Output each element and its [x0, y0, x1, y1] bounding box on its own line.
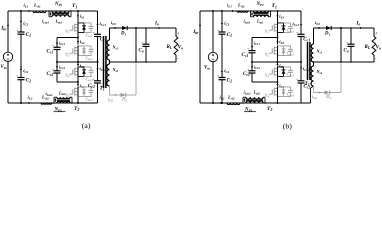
current arrow Iin (b)	[199, 26, 201, 31]
svg-text:+: +	[93, 77, 95, 81]
svg-text:Cc2: Cc2	[47, 72, 54, 77]
wire: top rail to S1 (a)	[77, 11, 79, 23]
source Vin (b)	[208, 52, 217, 61]
winding Ns2 (a)	[107, 64, 110, 86]
node: primary left (a)	[48, 10, 50, 12]
wire: magnetizing branch stubs (a)	[48, 11, 50, 17]
inductor NP1 primary winding (a)	[52, 11, 69, 13]
current arrow iS3 (a)	[77, 63, 79, 64]
current arrow iC2 (a)	[20, 70, 22, 74]
wire: clamp-right branch (a)	[97, 11, 99, 34]
svg-text:D1: D1	[120, 31, 126, 36]
transistor S4 (b) channel/gate	[273, 88, 275, 96]
current arrow iS1 (b)	[277, 13, 279, 16]
wire: input cap branch (a)	[20, 11, 22, 32]
transistor S1 (a) channel/gate	[74, 24, 76, 32]
wire: clamp-left branch to rail3 (b)	[251, 53, 253, 62]
svg-text:(a): (a)	[82, 121, 91, 130]
wire: Ns2 bottom stub (gray) (a)	[109, 86, 111, 95]
node: primary left (b)	[250, 10, 252, 12]
junction: rail2 (b)	[277, 37, 279, 39]
inductor Lm2 magnetizing (a)	[57, 97, 70, 99]
capacitor C2 (a)	[18, 77, 25, 79]
junction: cap branch top (a)	[20, 10, 22, 12]
wire: Co branch (b)	[350, 28, 352, 44]
transformer core bars (a)	[52, 12, 69, 14]
svg-text:T2: T2	[74, 106, 79, 112]
inductor LA2 (a)	[41, 103, 52, 104]
body diode of S4 (b)	[278, 87, 284, 97]
drain-source line of S1 (a)	[77, 22, 79, 33]
wire: S2 source to rail3 (b)	[277, 56, 279, 62]
current arrow iS4 (a)	[77, 83, 79, 84]
transformer core bars (b)	[246, 100, 263, 102]
svg-text:T1: T1	[72, 3, 77, 9]
junction: cap branch top (b)	[221, 10, 223, 12]
body diode of S3 (b)	[278, 67, 284, 77]
transformer core (a)	[103, 36, 105, 88]
capacitor Cc1 (a)	[94, 33, 101, 35]
current arrow Io (b)	[357, 27, 360, 29]
current arrow iS4 (b)	[277, 83, 279, 84]
transistor S2 (a) channel/gate	[74, 47, 76, 55]
current arrow iD1 (b)	[317, 27, 319, 29]
wire: secondary center tap (a)	[109, 60, 111, 64]
capacitor Cc2 left (b)	[249, 70, 256, 72]
capacitor Co (a)	[143, 43, 150, 45]
svg-text:Cc1: Cc1	[242, 53, 249, 58]
current arrow iC1 (a)	[20, 22, 22, 26]
svg-text:D1: D1	[324, 31, 330, 36]
junction: D1 output node (b)	[340, 27, 342, 29]
drain-source line of S4 (b)	[277, 86, 279, 97]
junction: S4 source on bottom rail (b)	[277, 102, 279, 104]
current arrow iD2 (gray) (a)	[113, 94, 115, 96]
inductor Lm2 magnetizing (b)	[246, 97, 263, 99]
diode D2 (gray) (a)	[121, 93, 126, 97]
wire: D2 to output return (gray) (a)	[126, 94, 136, 96]
svg-text:(b): (b)	[283, 122, 292, 131]
wire: D2 rail (gray) (a)	[110, 94, 121, 96]
diode D1 (b)	[326, 26, 331, 30]
svg-text:Vin: Vin	[1, 65, 7, 70]
wire: clamp-left branch lower (b)	[251, 62, 253, 71]
current arrow iS1 (a)	[77, 13, 79, 16]
current arrow iC1 (b)	[221, 20, 223, 24]
winding Ns1 (a)	[107, 40, 110, 60]
wire: magnetizing branch stubs (b)	[242, 97, 244, 103]
capacitor Cc1 left (a)	[54, 46, 61, 48]
junction: clamp-right on rail3 (a)	[97, 61, 99, 63]
inductor NP1 primary winding (b)	[254, 11, 269, 13]
current arrow Io (a)	[156, 27, 159, 29]
wire: output loop left edge (a)	[135, 28, 137, 62]
junction: cap branch bottom (a)	[20, 102, 22, 104]
node: bottom primary right (a)	[71, 102, 73, 104]
underline of NP2 label (a)	[54, 111, 66, 113]
wire: D1 rail (a)	[110, 27, 137, 29]
junction: clamp-left on rail3 (a)	[56, 61, 58, 63]
svg-text:+: +	[217, 29, 219, 33]
drain-source line of S4 (a)	[77, 86, 79, 97]
wire: output bottom rail (a)	[136, 61, 176, 63]
capacitor Coss3 of S3 (b)	[284, 67, 291, 71]
wire: Ns2 bottom stub (gray) (b)	[311, 86, 314, 88]
svg-text:Vin: Vin	[204, 66, 210, 71]
wire: Ns1 top to D1 rail (b)	[313, 28, 315, 44]
capacitor Coss2 of S2 (a)	[84, 46, 91, 50]
wire: secondary center tap (b)	[313, 62, 315, 66]
svg-text:+: +	[247, 67, 249, 71]
capacitor Coss1 of S1 (a)	[84, 23, 91, 27]
drain-source line of S3 (a)	[77, 66, 79, 77]
transistor S2 (b) channel/gate	[273, 47, 275, 55]
node: bottom primary left (b)	[242, 102, 244, 104]
svg-text:Co: Co	[139, 49, 144, 54]
wire: Co branch (a)	[145, 28, 147, 44]
junction: S1 drain on top rail (b)	[277, 10, 279, 12]
wire: D2 rail (gray) (b)	[314, 92, 325, 94]
junction: cap branch bottom (b)	[221, 102, 223, 104]
body diode of S3 (a)	[78, 67, 84, 77]
wire: D2 to output return (gray) (b)	[330, 92, 341, 94]
wire: magnetizing branch stubs (b)	[250, 11, 252, 17]
wire: rail3 (a)	[57, 61, 98, 63]
svg-text:+: +	[247, 47, 249, 51]
current arrow iS2 (b)	[277, 39, 279, 41]
winding Ns1 (b)	[311, 44, 313, 62]
svg-text:Io: Io	[356, 22, 361, 27]
capacitor C1 (b)	[219, 31, 226, 33]
junction: rail4 (a)	[77, 81, 79, 83]
wire: output loop left edge (b)	[340, 28, 342, 62]
wire: rail3 (b)	[252, 61, 301, 63]
capacitor Coss1 of S1 (b)	[284, 23, 291, 27]
current arrow iCc2a (b)	[251, 64, 253, 66]
node: bottom primary left (a)	[53, 102, 55, 104]
junction: output bottom-left (b)	[340, 61, 342, 63]
wire: bottom rail (b)	[200, 102, 311, 104]
wire: output bottom rail (b)	[341, 61, 374, 63]
transistor S4 (a) channel/gate	[74, 88, 76, 96]
underline of NP2 label (b)	[244, 111, 256, 113]
junction: rail3 (a)	[77, 61, 79, 63]
capacitor Coss4 of S4 (a)	[84, 87, 91, 91]
svg-text:+: +	[296, 31, 298, 35]
svg-text:RL: RL	[365, 45, 371, 50]
svg-text:+: +	[52, 67, 54, 71]
capacitor Cc2 left (a)	[54, 70, 61, 72]
junction: rail2 (a)	[77, 37, 79, 39]
current arrow iL1 (b)	[229, 10, 232, 12]
wire: clamp-right branch (b)	[300, 11, 302, 34]
junction: output bottom-left (a)	[135, 61, 137, 63]
svg-text:+: +	[93, 31, 95, 35]
inductor LA1 (a)	[33, 11, 46, 13]
current arrow iL1 (a)	[26, 10, 29, 12]
current arrow iD2 (gray) (b)	[317, 92, 319, 94]
current arrow iC2 (b)	[221, 68, 223, 72]
capacitor Coss3 of S3 (a)	[84, 67, 91, 71]
current arrow iS3 (b)	[277, 63, 279, 64]
wire: left edge upper (a)	[7, 11, 9, 52]
capacitor Cc1 left (b)	[249, 50, 256, 52]
junction: source branch top (b)	[212, 10, 214, 12]
current arrow iCc2 (b)	[300, 68, 302, 71]
current arrow Iin (a)	[7, 26, 9, 31]
current arrow iD1 (a)	[113, 27, 115, 29]
svg-text:+: +	[52, 44, 54, 48]
current arrow iLm2 (a)	[55, 100, 57, 102]
inductor LA2 (b)	[227, 103, 240, 105]
current arrow iCc1 (a)	[97, 21, 99, 24]
inductor NP2 primary winding (b)	[246, 101, 263, 103]
diode D2 (gray) (b)	[325, 90, 330, 94]
node: bottom primary right (b)	[264, 102, 266, 104]
wire: S4 source to bottom rail (b)	[277, 97, 279, 103]
wire: top rail to S1 (b)	[277, 11, 279, 23]
wire: output top rail (b)	[341, 27, 374, 29]
wire: source branch lower (b)	[212, 62, 214, 103]
wire: clamp-left branch to rail3 (a)	[56, 50, 58, 63]
transistor S1 (b) channel/gate	[273, 24, 275, 32]
resistor RL (a)	[175, 28, 177, 37]
diode D1 (a)	[122, 26, 127, 30]
wire: secondary bottom to bottom rail (b)	[310, 88, 312, 103]
current arrow iCc1a (b)	[251, 41, 253, 47]
body diode of S1 (a)	[78, 23, 84, 33]
current arrow iCc1a (a)	[56, 41, 58, 44]
source Vin (a)	[3, 52, 12, 61]
junction: clamp-right on rail3 (b)	[300, 61, 302, 63]
current arrow iLm2 (b)	[244, 100, 246, 102]
current arrow iL2 (a)	[29, 102, 32, 104]
svg-text:Cc1: Cc1	[47, 50, 54, 55]
wire: left edge lower (a)	[7, 62, 9, 103]
svg-text:Cc2: Cc2	[88, 84, 95, 89]
body diode of S1 (b)	[278, 23, 284, 33]
capacitor Coss4 of S4 (b)	[284, 87, 291, 91]
svg-text:Io: Io	[154, 22, 159, 27]
wire: clamp-left branch upper (b)	[251, 38, 253, 51]
resistor RL (b)	[373, 28, 375, 37]
junction: D1 output node (a)	[135, 27, 137, 29]
wire: Ns1 top to D1 rail (a)	[109, 28, 111, 40]
svg-text:+: +	[346, 41, 348, 45]
transformer core bars (b)	[254, 12, 269, 14]
current arrow iL2 (b)	[221, 102, 224, 104]
drain-source line of S2 (b)	[277, 45, 279, 56]
drain-source line of S3 (b)	[277, 66, 279, 77]
wire: S1 source to rail2 (b)	[277, 33, 279, 45]
svg-text:D2: D2	[325, 95, 331, 100]
svg-text:+: +	[16, 29, 18, 33]
svg-text:Co: Co	[344, 49, 349, 54]
capacitor Cc2 (a)	[94, 80, 101, 82]
svg-text:Cc2: Cc2	[243, 72, 250, 77]
wire: left edge (b)	[199, 11, 201, 103]
junction: S4 source on bottom rail (a)	[77, 102, 79, 104]
wire: rail2 (b)	[252, 37, 278, 39]
wire: rail4 (b)	[252, 81, 278, 83]
body diode of S2 (a)	[78, 46, 84, 56]
current arrow iLm1 (b)	[251, 12, 253, 14]
current arrow iLm1 (a)	[50, 12, 52, 14]
current arrow iCc2 (a)	[97, 66, 99, 69]
wire: clamp-left to rail4 (a)	[56, 73, 58, 82]
svg-text:NP1: NP1	[256, 2, 265, 7]
wire: top rail (b)	[200, 10, 301, 12]
node: primary right (a)	[70, 10, 72, 12]
node: primary right (b)	[270, 10, 272, 12]
wire: S1 source to rail2 (a)	[77, 33, 79, 45]
capacitor C2 (b)	[219, 77, 226, 79]
svg-text:T2: T2	[267, 106, 272, 112]
capacitor Coss2 of S2 (b)	[284, 46, 291, 50]
svg-text:+: +	[217, 74, 219, 78]
wire: S3 source to rail4 (a)	[77, 77, 79, 82]
svg-text:+: +	[16, 74, 18, 78]
wire: S3 source to rail4 (b)	[277, 77, 279, 82]
current arrow iCc1 (b)	[300, 21, 302, 24]
winding Ns2 (b)	[311, 66, 314, 86]
transformer core bars (a)	[57, 100, 70, 102]
current arrow iCc2a (a)	[56, 64, 58, 66]
transistor S3 (a) channel/gate	[74, 68, 76, 76]
junction: rail4 (b)	[277, 81, 279, 83]
wire: D1 rail (b)	[314, 27, 342, 29]
wire: bottom rail (a)	[8, 102, 98, 104]
wire: source branch upper (b)	[212, 11, 214, 52]
current arrow iS2 (a)	[77, 39, 79, 41]
wire: top rail (a)	[8, 10, 98, 12]
junction: source branch bottom (b)	[212, 102, 214, 104]
body diode of S2 (b)	[278, 46, 284, 56]
wire: rail4 (a)	[57, 81, 78, 83]
svg-text:D2: D2	[121, 98, 127, 103]
svg-text:+: +	[141, 41, 143, 45]
transformer core (b)	[307, 42, 309, 80]
svg-text:RL: RL	[167, 45, 173, 50]
capacitor Co (b)	[348, 43, 355, 45]
wire: S2 source to rail3 (a)	[77, 56, 79, 62]
wire: rail2 (a)	[57, 37, 78, 39]
wire: clamp-left branch upper (a)	[56, 38, 58, 48]
wire: magnetizing branch stubs (a)	[53, 97, 55, 103]
inductor Lm1 magnetizing (a)	[52, 15, 69, 17]
wire: clamp-left branch lower (a)	[56, 62, 58, 71]
svg-text:NP1: NP1	[54, 2, 63, 7]
junction: rail3 (b)	[277, 61, 279, 63]
capacitor C1 (a)	[18, 31, 25, 33]
inductor Lm1 magnetizing (b)	[254, 15, 269, 17]
wire: clamp-left to rail4 (b)	[251, 73, 253, 82]
svg-text:+: +	[296, 77, 298, 81]
inductor NP2 primary winding (a)	[57, 101, 70, 103]
transistor S3 (b) channel/gate	[273, 68, 275, 76]
body diode of S4 (a)	[78, 87, 84, 97]
junction: S1 drain on top rail (a)	[77, 10, 79, 12]
junction: clamp-left on rail3 (b)	[251, 61, 253, 63]
capacitor Cc2 (b)	[298, 80, 305, 82]
drain-source line of S2 (a)	[77, 45, 79, 56]
wire: S4 source to bottom rail (a)	[77, 97, 79, 103]
svg-text:T1: T1	[272, 3, 277, 9]
drain-source line of S1 (b)	[277, 22, 279, 33]
wire: output top rail (a)	[136, 27, 176, 29]
wire: input cap branch (b)	[221, 11, 223, 32]
inductor LA1 (b)	[237, 11, 248, 12]
capacitor Cc1 (b)	[298, 33, 305, 35]
